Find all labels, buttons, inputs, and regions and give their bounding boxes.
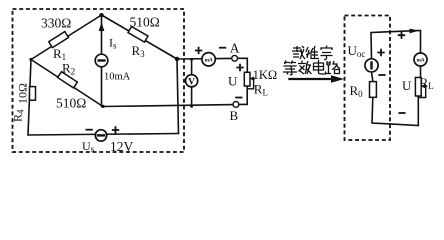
svg-text:12V: 12V xyxy=(110,139,134,154)
svg-text:A: A xyxy=(230,41,240,56)
svg-text:mA: mA xyxy=(417,58,425,64)
svg-text:U: U xyxy=(228,74,238,89)
svg-text:10Ω: 10Ω xyxy=(16,83,30,104)
svg-text:B: B xyxy=(230,108,239,123)
svg-text:U: U xyxy=(402,78,412,93)
svg-text:510Ω: 510Ω xyxy=(130,15,160,30)
svg-text:10mA: 10mA xyxy=(104,72,131,83)
svg-text:mA: mA xyxy=(205,57,213,63)
svg-text:V: V xyxy=(188,77,195,87)
svg-text:1KΩ: 1KΩ xyxy=(253,68,278,82)
svg-text:510Ω: 510Ω xyxy=(56,96,86,111)
svg-text:330Ω: 330Ω xyxy=(41,16,71,31)
